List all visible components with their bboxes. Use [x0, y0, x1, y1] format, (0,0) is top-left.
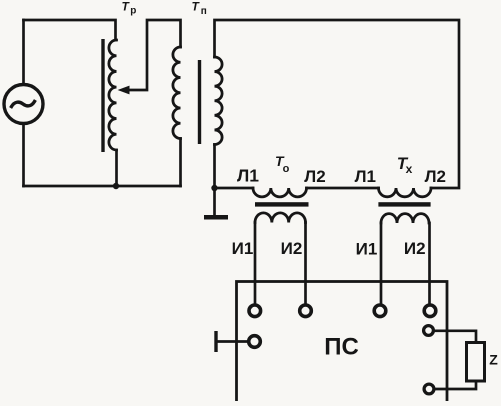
transformer Tn core bar	[198, 60, 201, 144]
wire: To secondary lead I1	[254, 223, 257, 303]
svg-text:И2: И2	[404, 239, 426, 258]
wire: Tn secondary bottom lead	[213, 145, 216, 189]
terminal circle I2-To	[300, 305, 312, 317]
junction dot at Tp bottom	[113, 183, 119, 189]
svg-text:T: T	[122, 0, 131, 14]
transformer Tn primary winding	[173, 47, 181, 139]
autotransformer Tp core bar	[101, 39, 104, 152]
left earth terminal circle	[249, 336, 261, 348]
wire: source bottom lead	[22, 124, 25, 186]
svg-text:p: p	[130, 5, 136, 16]
wire: To secondary lead I2	[304, 223, 307, 303]
CT Tx primary winding	[379, 188, 432, 197]
wire: source top lead	[22, 20, 25, 84]
wire: Tx secondary lead I1	[380, 223, 383, 303]
svg-text:п: п	[201, 6, 207, 17]
wire: ground node to L1 of To	[215, 187, 254, 190]
svg-text:ПС: ПС	[324, 334, 359, 361]
wire: Tp bottom lead	[115, 150, 118, 186]
autotransformer Tp winding	[109, 40, 117, 150]
svg-text:Л2: Л2	[304, 167, 325, 186]
left terminal end bar	[214, 331, 217, 352]
wire: Tn secondary top lead and top bus to the right	[215, 20, 460, 188]
impedance Z	[467, 343, 485, 382]
terminal circle to Z top	[424, 326, 434, 336]
svg-text:Z: Z	[489, 352, 498, 368]
svg-text:Л1: Л1	[355, 167, 376, 186]
CT To secondary winding	[255, 213, 306, 223]
svg-text:о: о	[283, 163, 290, 175]
wire: Tn primary bottom lead	[179, 139, 182, 187]
svg-text:Л1: Л1	[237, 165, 259, 185]
CT To core bar	[255, 202, 309, 206]
wire: top left horizontal	[24, 20, 116, 40]
wire: L2 of To to L1 of Tx	[307, 187, 379, 190]
CT Tx secondary winding	[381, 214, 429, 223]
svg-text:Л2: Л2	[425, 167, 446, 186]
junction dot at ground node	[211, 185, 217, 191]
CT To primary winding	[253, 188, 307, 197]
svg-text:И1: И1	[356, 240, 378, 259]
svg-text:T: T	[192, 0, 201, 14]
terminal circle I1-To	[249, 305, 261, 317]
wire: bottom horizontal (source to Tn primary)	[24, 185, 181, 188]
wire: Z bottom connection	[436, 381, 477, 389]
terminal circle I2-Tx	[424, 305, 436, 317]
svg-text:х: х	[406, 162, 413, 176]
tap arrow wire of Tp	[118, 20, 181, 94]
wire: Tx secondary lead I2	[428, 223, 431, 304]
terminal circle to Z bottom	[424, 384, 434, 394]
ground	[204, 188, 228, 220]
wire: Z top connection	[435, 331, 476, 343]
AC source G1	[4, 85, 43, 124]
svg-text:И1: И1	[232, 239, 254, 258]
svg-text:И2: И2	[281, 239, 303, 258]
terminal circle I1-Tx	[374, 305, 386, 317]
transformer Tn secondary winding	[215, 57, 223, 145]
comparison device PS box	[237, 282, 448, 406]
CT Tx core bar	[378, 202, 430, 206]
wire: left terminal to bar	[217, 340, 247, 343]
